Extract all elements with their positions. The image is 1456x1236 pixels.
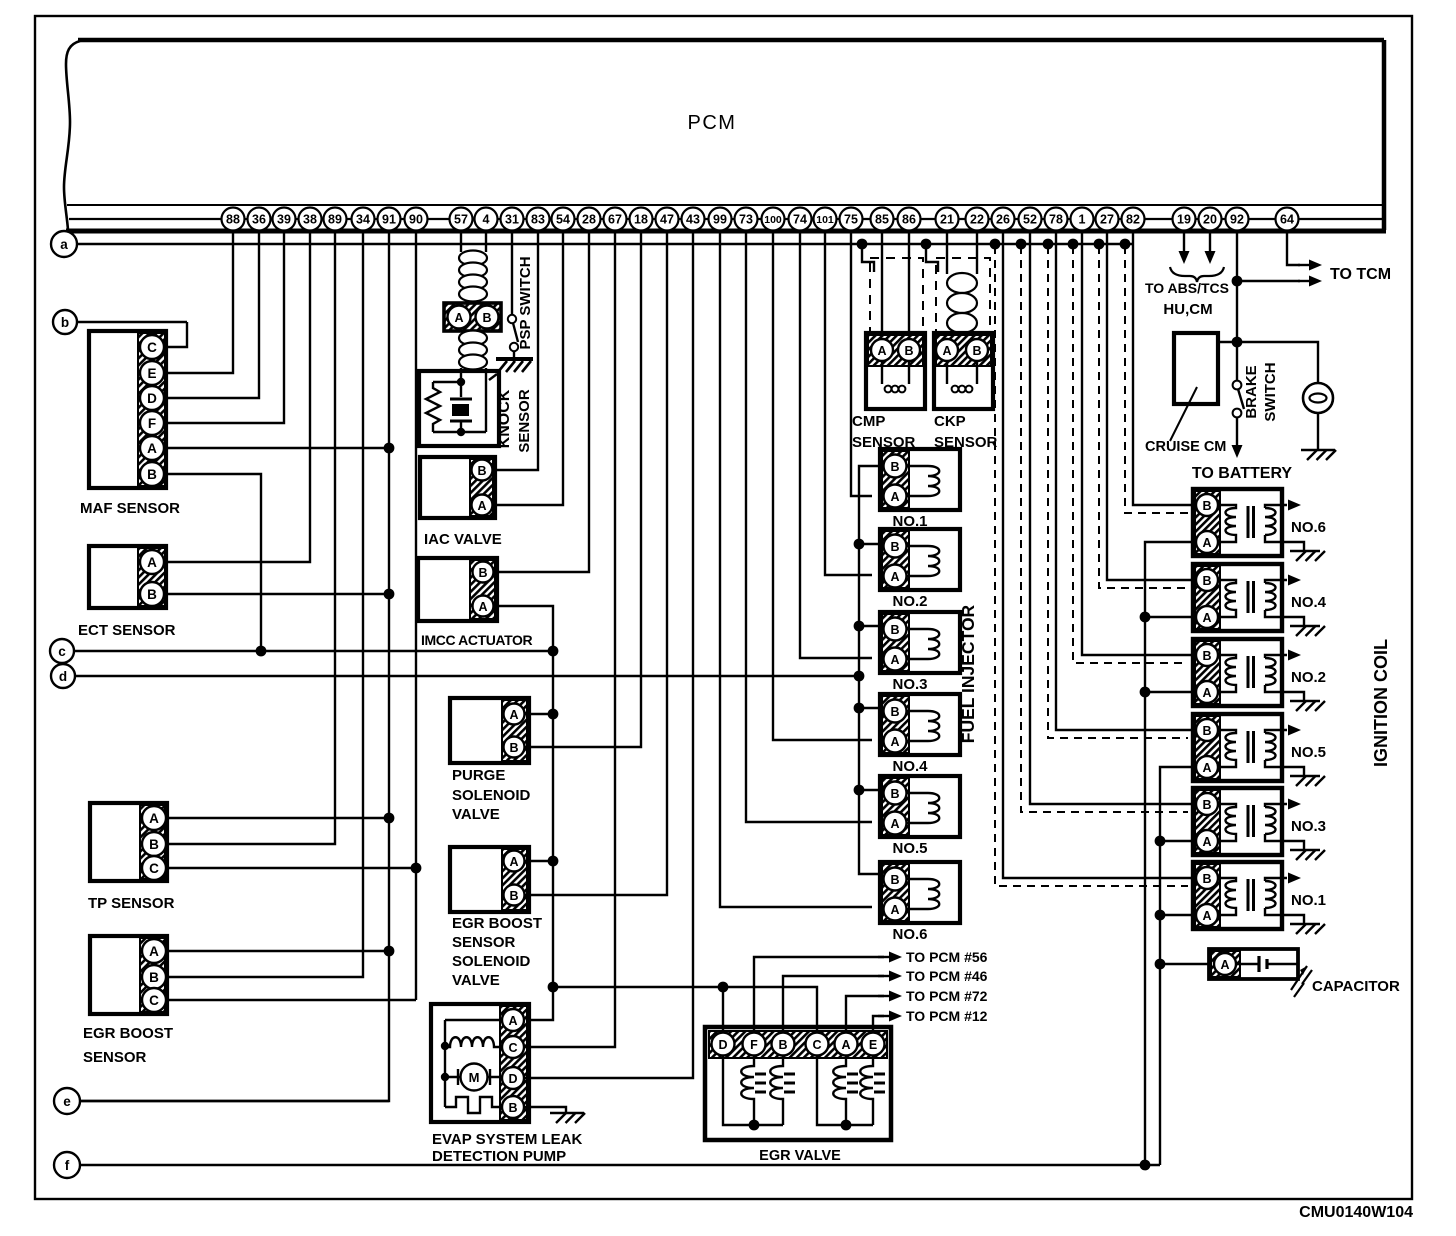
knock internal piezo element <box>452 404 469 416</box>
svg-text:CRUISE CM: CRUISE CM <box>1145 439 1226 455</box>
wire pin 92 branch to TCM <box>1237 280 1300 282</box>
svg-text:B: B <box>890 787 899 801</box>
ignition coil NO.2 secondary winding <box>1265 658 1276 685</box>
wire CKP B stub <box>976 331 978 339</box>
EVAP internal coil <box>445 1037 502 1047</box>
fuel injector NO.2 box <box>880 529 960 590</box>
TP sensor pin A <box>142 806 166 830</box>
CMP shield drain from bus a <box>862 246 874 272</box>
fuel injector NO.2 pin B <box>884 535 907 558</box>
ignition coil NO.4 box <box>1193 564 1282 631</box>
ignition coil NO.1 secondary winding <box>1265 881 1276 908</box>
wire EVAP B to ground <box>524 1107 566 1112</box>
svg-text:SOLENOID: SOLENOID <box>452 953 531 970</box>
svg-text:A: A <box>478 600 487 614</box>
brake switch blade <box>1238 389 1244 409</box>
fuel injector NO.6 coil <box>906 879 939 909</box>
EGR valve coil E core ticks <box>874 1074 885 1092</box>
CKP sensor pin band <box>936 335 991 366</box>
knock internal piezo plate upper <box>450 398 472 401</box>
junction shield drain on bus a x995 <box>990 239 1001 250</box>
junction MAF B on bus c <box>256 646 267 657</box>
knock twisted pair ellipse upper 1 <box>459 251 487 266</box>
wire IMCC A to solenoid bus <box>494 606 553 1020</box>
ignition coil NO.6 pin column <box>1195 491 1220 554</box>
MAF sensor pin column <box>138 333 165 486</box>
junction injector B bus y544 <box>854 539 865 550</box>
IMCC actuator pin column <box>470 560 495 619</box>
fuel injector NO.4 pin column <box>882 696 909 753</box>
ignition coil NO.6 secondary winding <box>1265 508 1276 535</box>
PCM pin 89 <box>324 208 347 231</box>
svg-text:TP SENSOR: TP SENSOR <box>88 895 175 912</box>
svg-text:c: c <box>58 644 66 659</box>
fuel injector NO.4 box <box>880 694 960 755</box>
PCM pin 43 <box>682 208 705 231</box>
fuel injector NO.2 coil <box>906 546 939 576</box>
svg-text:A: A <box>890 735 899 749</box>
svg-text:A: A <box>1202 835 1211 849</box>
svg-text:101: 101 <box>816 214 834 226</box>
knock internal resistor <box>426 382 440 432</box>
ignition coil NO.4 ground <box>1290 626 1325 636</box>
cruise CM leader line <box>1170 387 1197 441</box>
svg-text:HU,CM: HU,CM <box>1163 301 1212 318</box>
ignition coil NO.4 pin A <box>1196 606 1218 628</box>
junction EGR valve feed on solenoid bus <box>548 982 559 993</box>
svg-text:C: C <box>149 861 159 876</box>
junction shield drain on bus a x1021 <box>1016 239 1027 250</box>
wire purge A to solenoid bus <box>525 713 553 715</box>
branch coil return bus1 NO.4 <box>1145 616 1196 618</box>
wire IAC A to pin 54 <box>493 232 563 505</box>
bus wire f <box>80 1164 1160 1166</box>
wire MAF C to node b <box>164 322 187 347</box>
PCM pin 20 <box>1199 208 1222 231</box>
EGR valve coil B core ticks <box>784 1074 795 1092</box>
junction ECT B on pin-91 bus <box>384 589 395 600</box>
svg-text:C: C <box>508 1041 517 1055</box>
ignition coil NO.3 ground <box>1290 850 1325 860</box>
EGR valve box <box>705 1027 891 1140</box>
svg-text:NO.5: NO.5 <box>1291 744 1326 761</box>
svg-text:NO.1: NO.1 <box>1291 892 1326 909</box>
fuel injector NO.2 pin column <box>882 531 909 588</box>
PCM connector band upper line <box>67 204 1384 206</box>
EGR valve pin A <box>835 1033 858 1056</box>
ignition shield dashed wire x1125 <box>1125 246 1188 513</box>
svg-text:EVAP SYSTEM LEAK: EVAP SYSTEM LEAK <box>432 1131 582 1148</box>
svg-text:E: E <box>869 1038 877 1052</box>
EGR boost sensor solenoid valve box <box>450 847 529 912</box>
svg-text:A: A <box>509 855 518 869</box>
PCM pin 64 <box>1276 208 1299 231</box>
svg-text:SENSOR: SENSOR <box>516 389 533 453</box>
PCM pin 27 <box>1096 208 1119 231</box>
wire cruise to brake node <box>1218 341 1237 343</box>
wire EGR boost A to sensor ground bus <box>166 950 389 952</box>
EGR valve right rail node <box>841 1120 852 1131</box>
CKP pickup coil leads <box>947 361 977 384</box>
svg-text:NO.4: NO.4 <box>1291 594 1327 611</box>
MAF sensor pin B <box>140 462 164 486</box>
fuel injector NO.3 pin A <box>884 648 907 671</box>
knock connector pin B <box>476 306 499 329</box>
junction brake node <box>1232 337 1243 348</box>
knock sensor connector box <box>444 303 501 331</box>
ignition coil NO.4 pin B <box>1196 569 1218 591</box>
PCM pin 91 <box>378 208 401 231</box>
CKP sensor pin A <box>936 339 958 361</box>
svg-text:A: A <box>454 311 463 325</box>
wire pin 73 to injector 5 A <box>746 232 872 822</box>
svg-text:EGR VALVE: EGR VALVE <box>759 1148 841 1164</box>
wire pin 19 stub <box>1183 232 1185 251</box>
node a terminal <box>51 231 77 257</box>
TP sensor pin B <box>142 832 166 856</box>
svg-text:IGNITION COIL: IGNITION COIL <box>1371 639 1391 767</box>
svg-text:B: B <box>890 540 899 554</box>
junction EGR boost solenoid A on solenoid bus <box>548 856 559 867</box>
wire ignition coil feed from pin x1133 <box>1133 232 1196 505</box>
ECT sensor pin column <box>138 548 165 606</box>
fuel injector NO.4 pin A <box>884 730 907 753</box>
svg-text:VALVE: VALVE <box>452 806 500 823</box>
wire brake node to stop lamp <box>1237 342 1318 383</box>
MAF sensor box <box>89 331 166 488</box>
svg-text:TO PCM #72: TO PCM #72 <box>906 988 988 1004</box>
PCM pin 31 <box>501 208 524 231</box>
PCM pin 92 <box>1226 208 1249 231</box>
knock twisted pair ellipse lower 1 <box>459 331 487 346</box>
PCM box right edge <box>1382 40 1387 230</box>
wire pin 22 to CKP B <box>976 232 978 274</box>
EVAP pump pin A <box>502 1009 524 1031</box>
knock twisted pair ellipse upper 3 <box>459 275 487 290</box>
knock sensor internal top rail <box>433 381 461 383</box>
junction purge A on solenoid bus <box>548 709 559 720</box>
fuel injector NO.5 pin A <box>884 812 907 835</box>
capacitor box <box>1209 949 1298 979</box>
ignition coil NO.5 HT arrow <box>1288 725 1301 736</box>
svg-text:B: B <box>482 311 491 325</box>
PCM pin 36 <box>248 208 271 231</box>
svg-text:DETECTION PUMP: DETECTION PUMP <box>432 1148 566 1165</box>
fuel injector NO.3 pin B <box>884 618 907 641</box>
ignition coil NO.2 core bars <box>1248 656 1254 688</box>
EGR boost sensor box <box>90 936 167 1014</box>
svg-text:B: B <box>1202 649 1211 663</box>
wire ignition coil feed from pin x1082 <box>1082 232 1196 655</box>
svg-text:A: A <box>147 441 157 456</box>
svg-text:VALVE: VALVE <box>452 972 500 989</box>
svg-text:SENSOR: SENSOR <box>452 934 516 951</box>
svg-text:NO.6: NO.6 <box>892 926 927 943</box>
EGR valve coil F core ticks <box>755 1074 766 1092</box>
junction capacitor on coil return bus2 <box>1155 959 1166 970</box>
capacitor pin A <box>1214 953 1236 975</box>
EGR boost solenoid pin B <box>504 885 525 906</box>
svg-text:PSP SWITCH: PSP SWITCH <box>517 256 534 349</box>
ignition coil NO.6 box <box>1193 489 1282 556</box>
arrow to battery <box>1232 445 1243 458</box>
junction CKP shield on bus a <box>921 239 932 250</box>
PSP switch lower contact <box>510 343 518 351</box>
arrow to PCM 12 <box>878 1015 892 1017</box>
ignition coil NO.6 ground <box>1290 551 1325 561</box>
wire CKP A stub <box>946 331 948 339</box>
svg-text:PURGE: PURGE <box>452 767 505 784</box>
CMP pickup coil <box>885 386 906 393</box>
junction TP C on pin-90 bus <box>411 863 422 874</box>
ignition coil NO.6 pin B <box>1196 494 1218 516</box>
junction shield drain on bus a x1125 <box>1120 239 1131 250</box>
svg-text:SOLENOID: SOLENOID <box>452 787 531 804</box>
wire EGR B to PCM 46 <box>783 976 884 1031</box>
CMP sensor pin band <box>868 335 923 366</box>
svg-text:A: A <box>1202 611 1211 625</box>
wire ignition coil feed from pin x1003 <box>1003 232 1196 878</box>
svg-text:FUEL INJECTOR: FUEL INJECTOR <box>958 604 978 743</box>
wire MAF A to sensor ground bus <box>164 447 389 449</box>
svg-text:B: B <box>149 970 159 985</box>
PCM pin 100 <box>762 208 785 231</box>
svg-text:PCM: PCM <box>688 112 737 134</box>
svg-text:TO BATTERY: TO BATTERY <box>1192 465 1292 482</box>
EVAP motor lead left <box>445 1069 460 1085</box>
wire pin 100 to injector 4 A <box>773 232 872 740</box>
junction EGR boost A on pin-91 bus <box>384 946 395 957</box>
svg-text:B: B <box>508 1101 517 1115</box>
ignition coil NO.3 box <box>1193 788 1282 855</box>
EGR valve right rail <box>817 1056 873 1125</box>
ignition coil NO.2 ground lead <box>1265 685 1304 701</box>
arrow pin 92 to TCM <box>1298 280 1312 282</box>
PSP switch ground <box>489 359 533 380</box>
node d terminal <box>51 664 75 688</box>
wire IAC B to pin 83 <box>493 232 538 470</box>
EVAP pump pin C <box>502 1036 524 1058</box>
branch coil return bus2 NO.3 <box>1160 840 1196 842</box>
CMP sensor pin A <box>871 339 893 361</box>
brake switch lower lead <box>1236 417 1238 445</box>
EVAP internal pump element <box>445 1097 502 1113</box>
IAC valve pin column <box>470 459 493 516</box>
fuel injector NO.5 pin column <box>882 778 909 835</box>
arrow to PCM 56 <box>878 956 892 958</box>
fuel injector NO.6 box <box>880 862 960 923</box>
svg-text:38: 38 <box>303 213 317 227</box>
svg-text:A: A <box>890 817 899 831</box>
PCM pin 39 <box>273 208 296 231</box>
arrow pin 19 to ABS <box>1179 251 1190 264</box>
ignition coil NO.2 pin column <box>1195 641 1220 704</box>
svg-text:KNOCK: KNOCK <box>496 389 513 448</box>
PCM pin 47 <box>656 208 679 231</box>
EVAP internal rail <box>445 1020 502 1107</box>
EGR boost solenoid pin column <box>502 849 527 910</box>
svg-text:B: B <box>1202 798 1211 812</box>
svg-text:20: 20 <box>1203 213 1217 227</box>
svg-text:A: A <box>1202 909 1211 923</box>
PCM pin 88 <box>222 208 245 231</box>
EGR boost solenoid pin A <box>504 851 525 872</box>
wire ECT A to pin 38 <box>164 232 310 562</box>
fuel injector NO.2 pin A <box>884 565 907 588</box>
ignition coil NO.5 pin column <box>1195 716 1220 779</box>
IAC valve pin A <box>472 495 493 516</box>
svg-text:73: 73 <box>739 213 753 227</box>
svg-text:TO PCM #46: TO PCM #46 <box>906 968 988 984</box>
ignition coil NO.1 primary winding <box>1219 878 1236 915</box>
svg-text:SENSOR: SENSOR <box>83 1049 147 1066</box>
wire pin 85 to CMP A <box>881 232 883 339</box>
CKP shield dashed box <box>936 258 990 332</box>
svg-text:A: A <box>509 708 518 722</box>
arrow pin 20 to ABS <box>1205 251 1216 264</box>
fuel injector NO.1 box <box>880 449 960 510</box>
ignition coil NO.6 HT arrow <box>1288 500 1301 511</box>
fuel injector NO.1 coil <box>906 466 939 496</box>
CMP sensor pin B <box>898 339 920 361</box>
coil return bus 2 <box>1160 767 1196 1165</box>
ignition coil NO.3 core bars <box>1248 805 1254 837</box>
bus wire a <box>77 243 1133 245</box>
PSP switch lower lead <box>513 351 515 362</box>
svg-text:A: A <box>841 1038 850 1052</box>
PCM pin 78 <box>1045 208 1068 231</box>
capacitor lead right <box>1266 963 1298 965</box>
arrow to PCM 46 <box>878 975 892 977</box>
svg-text:B: B <box>1202 574 1211 588</box>
wire ignition coil feed from pin x1107 <box>1107 232 1196 580</box>
EGR boost sensor pin B <box>142 965 166 989</box>
svg-text:92: 92 <box>1230 213 1244 227</box>
knock internal right wire <box>485 368 487 432</box>
junction injector B bus y708 <box>854 703 865 714</box>
PCM pin 54 <box>552 208 575 231</box>
EVAP pump pin B <box>502 1096 524 1118</box>
MAF sensor pin D <box>140 386 164 410</box>
bus wire c <box>74 650 553 652</box>
PCM connector band lower thick line <box>66 229 1386 234</box>
svg-text:CMP: CMP <box>852 413 885 430</box>
PCM pin 74 <box>789 208 812 231</box>
junction coil return bus2 NO.1 <box>1155 910 1166 921</box>
ignition coil NO.5 HT lead <box>1265 730 1287 733</box>
PCM pin 28 <box>578 208 601 231</box>
fuel injector NO.5 coil <box>906 793 939 823</box>
EVAP internal node lower <box>441 1073 449 1081</box>
bus wire b <box>77 321 187 323</box>
ignition coil NO.3 pin column <box>1195 790 1220 853</box>
capacitor lead left <box>1236 963 1258 965</box>
wire ignition coil feed from pin x1030 <box>1030 232 1196 804</box>
wire EGR A to PCM 72 <box>846 996 884 1031</box>
brake switch lower contact <box>1233 409 1242 418</box>
ignition coil NO.4 HT arrow <box>1288 575 1301 586</box>
ignition coil NO.5 pin A <box>1196 756 1218 778</box>
wire pin 64 to TCM <box>1287 232 1300 265</box>
svg-text:C: C <box>149 993 159 1008</box>
node c terminal <box>50 639 74 663</box>
svg-text:A: A <box>1202 686 1211 700</box>
ignition coil NO.3 HT lead <box>1265 804 1287 807</box>
wire pin 4 stub <box>485 232 487 252</box>
ignition coil NO.1 HT lead <box>1265 878 1287 881</box>
svg-text:A: A <box>890 903 899 917</box>
EVAP motor lead right <box>488 1069 502 1085</box>
wire purge B to pin 18 <box>525 232 641 747</box>
svg-text:CKP: CKP <box>934 413 966 430</box>
PCM pin 26 <box>992 208 1015 231</box>
ignition coil NO.3 pin B <box>1196 793 1218 815</box>
capacitor plates <box>1259 956 1267 972</box>
PCM pin 99 <box>709 208 732 231</box>
bus wire e <box>80 1100 389 1102</box>
svg-text:19: 19 <box>1177 213 1191 227</box>
junction coil return bus1 NO.4 <box>1140 612 1151 623</box>
svg-text:CAPACITOR: CAPACITOR <box>1312 978 1400 995</box>
PCM pin 34 <box>352 208 375 231</box>
fuel injector NO.3 box <box>880 612 960 673</box>
svg-text:B: B <box>890 873 899 887</box>
wire MAF B to bus c <box>164 474 261 651</box>
junction coil return bus2 NO.3 <box>1155 836 1166 847</box>
wire TP A to sensor ground bus <box>166 817 389 819</box>
svg-text:86: 86 <box>902 213 916 227</box>
svg-text:18: 18 <box>634 213 648 227</box>
svg-text:A: A <box>149 944 159 959</box>
junction injector B bus y626 <box>854 621 865 632</box>
svg-text:e: e <box>63 1094 71 1109</box>
wire EGR boost solenoid B to pin 47 <box>525 232 667 895</box>
svg-text:B: B <box>890 705 899 719</box>
ignition coil NO.6 primary winding <box>1219 505 1236 542</box>
wire ignition coil feed from pin x1056 <box>1056 232 1196 730</box>
svg-text:64: 64 <box>1280 213 1294 227</box>
EGR boost sensor pin C <box>142 988 166 1012</box>
knock twisted pair ellipse upper 4 <box>459 287 487 302</box>
CKP twisted pair ellipse 3 <box>947 313 977 333</box>
PCM pin 101 <box>814 208 837 231</box>
IMCC actuator box <box>418 558 497 621</box>
ignition coil NO.5 pin B <box>1196 719 1218 741</box>
junction injector B bus y790 <box>854 785 865 796</box>
CKP shield drain from bus a <box>926 246 938 272</box>
IAC valve box <box>420 457 495 518</box>
svg-text:A: A <box>877 344 886 358</box>
junction TP A on pin-91 bus <box>384 813 395 824</box>
svg-text:4: 4 <box>483 213 490 227</box>
wire pin 74 to injector 3 A <box>800 232 872 658</box>
ignition coil NO.1 pin column <box>1195 864 1220 927</box>
svg-text:A: A <box>477 499 486 513</box>
PCM pin 4 <box>475 208 498 231</box>
fuel injector NO.1 pin B <box>884 455 907 478</box>
junction coil return bus1 on bus f <box>1140 1160 1151 1171</box>
svg-text:36: 36 <box>252 213 266 227</box>
fuel injector NO.3 coil <box>906 629 939 659</box>
junction shield drain on bus a x1099 <box>1094 239 1105 250</box>
ignition coil NO.6 core bars <box>1248 506 1254 538</box>
svg-text:B: B <box>509 889 518 903</box>
svg-text:ECT SENSOR: ECT SENSOR <box>78 622 176 639</box>
svg-text:C: C <box>147 340 157 355</box>
stop lamp <box>1303 383 1333 413</box>
CKP pickup coil <box>952 386 973 393</box>
ECT sensor pin B <box>140 582 164 606</box>
